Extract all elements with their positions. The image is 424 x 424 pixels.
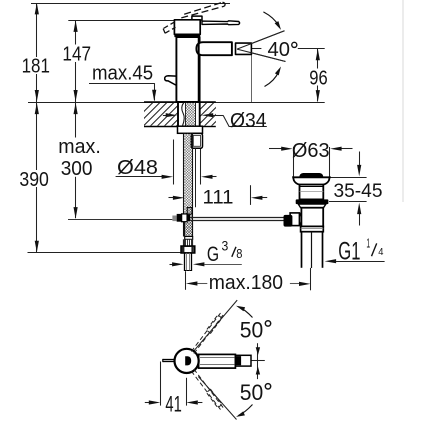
svg-text:max.45: max.45: [92, 62, 153, 85]
svg-text:Ø63: Ø63: [292, 139, 330, 162]
svg-text:G: G: [207, 243, 219, 266]
svg-text:181: 181: [22, 55, 50, 78]
svg-text:35-45: 35-45: [334, 180, 383, 202]
svg-text:Ø34: Ø34: [230, 109, 267, 132]
svg-text:G1: G1: [338, 237, 360, 265]
svg-text:300: 300: [61, 157, 93, 180]
svg-text:1: 1: [366, 236, 370, 250]
svg-text:8: 8: [236, 247, 242, 261]
svg-text:max.180: max.180: [209, 271, 283, 294]
svg-text:50: 50: [240, 317, 263, 342]
svg-text:Ø48: Ø48: [117, 156, 158, 179]
svg-text:147: 147: [62, 42, 91, 65]
svg-text:96: 96: [309, 67, 327, 90]
svg-text:41: 41: [165, 391, 181, 416]
svg-text:390: 390: [19, 168, 49, 191]
svg-text:50: 50: [240, 380, 263, 405]
svg-text:4: 4: [378, 246, 383, 258]
svg-text:3: 3: [222, 238, 229, 253]
svg-text:111: 111: [203, 186, 234, 208]
svg-text:max.: max.: [58, 135, 101, 158]
